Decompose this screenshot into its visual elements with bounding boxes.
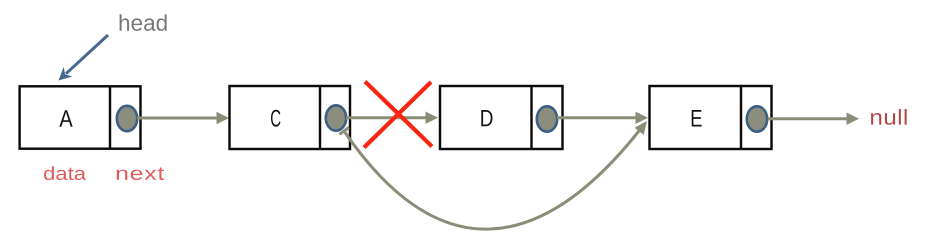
node D data label [481,110,492,126]
label null [871,109,907,125]
wire D to E [557,112,648,124]
node C box [230,86,351,149]
arrow head-pointer (blue) [59,35,109,81]
label data [44,166,86,180]
node C data label [271,110,281,127]
wire C to E (bypass curve) [340,121,648,229]
label next [117,168,165,181]
label head [120,14,167,31]
wire E to null [768,113,859,125]
node A data label [59,110,72,126]
red X delete mark [364,82,432,148]
node A box [20,86,141,148]
node D next pointer oval [537,106,557,131]
node E data label [692,110,702,127]
node C next pointer oval [326,105,346,130]
node A next pointer oval [117,106,137,131]
wire A to C [137,112,229,124]
wire C to D (deleted link) [346,112,438,124]
node E next pointer oval [747,106,767,131]
node E box [650,86,772,149]
node D box [440,86,563,149]
